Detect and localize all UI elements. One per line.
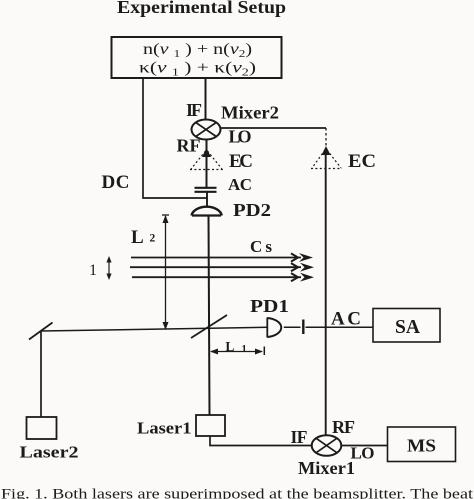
svg-text:2: 2: [150, 233, 156, 245]
svg-text:1: 1: [89, 262, 97, 279]
svg-text:DC: DC: [102, 172, 130, 193]
svg-text:Mixer1: Mixer1: [298, 458, 355, 478]
svg-text:Laser1: Laser1: [137, 419, 192, 438]
svg-text:RF: RF: [177, 136, 201, 156]
svg-text:EC: EC: [348, 151, 376, 172]
svg-text:LO: LO: [229, 127, 252, 147]
svg-text:EC: EC: [229, 151, 253, 172]
svg-text:AC: AC: [228, 175, 252, 194]
svg-text:Experimental Setup: Experimental Setup: [117, 0, 286, 17]
svg-text:Mixer2: Mixer2: [221, 103, 279, 123]
svg-text:PD2: PD2: [233, 200, 271, 220]
svg-text:Fig. 1. Both lasers are superi: Fig. 1. Both lasers are superimposed at …: [1, 487, 473, 499]
svg-text:L: L: [131, 227, 144, 248]
svg-text:1: 1: [242, 344, 247, 355]
svg-text:IF: IF: [291, 427, 308, 447]
svg-text:L: L: [225, 339, 234, 354]
svg-text:SA: SA: [395, 316, 421, 338]
svg-text:MS: MS: [407, 436, 436, 456]
svg-text:PD1: PD1: [250, 296, 289, 316]
svg-text:Cs: Cs: [250, 237, 272, 256]
svg-text:n(ν 1 ) + n(ν2): n(ν 1 ) + n(ν2): [143, 41, 252, 60]
svg-text:RF: RF: [332, 417, 355, 437]
svg-text:κ(ν 1 ) + κ(ν2): κ(ν 1 ) + κ(ν2): [139, 60, 256, 79]
svg-text:IF: IF: [186, 100, 202, 120]
svg-text:Laser2: Laser2: [20, 443, 79, 462]
